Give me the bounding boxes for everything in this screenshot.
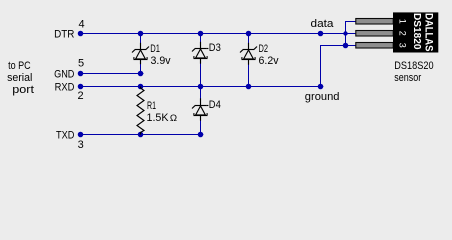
junction ground corner on RXD line [318, 84, 324, 90]
junction D1 bottom on GND line [138, 71, 144, 77]
wire D3 branch vertical top [200, 34, 201, 42]
diode D4 symbol [192, 98, 208, 120]
svg-text:sensor: sensor [394, 72, 421, 84]
DS18S20 sensor package body [393, 12, 438, 52]
svg-text:D4: D4 [209, 99, 221, 111]
wire sensor pin1 stub horizontal [345, 21, 356, 22]
svg-text:R1: R1 [147, 100, 156, 112]
label to PC serial port [7, 60, 34, 96]
wire D4 branch vertical top [200, 87, 201, 99]
wire RXD net horizontal [78, 86, 323, 87]
svg-text:GND: GND [54, 68, 74, 80]
svg-text:TXD: TXD [56, 129, 74, 141]
svg-text:RXD: RXD [55, 81, 75, 93]
svg-text:DALLAS: DALLAS [423, 13, 435, 52]
wire ground horizontal to sensor pin3 [320, 45, 356, 46]
svg-text:1: 1 [398, 19, 408, 24]
wire D1 branch vertical top [140, 34, 141, 43]
junction D3/D4 node on RXD line [198, 84, 204, 90]
junction R1 bottom on TXD line [138, 132, 144, 138]
diode D3 symbol [192, 42, 208, 64]
wire ground vertical [320, 45, 321, 87]
svg-text:D1: D1 [150, 43, 160, 55]
sensor pin 1 lead [356, 19, 393, 25]
wire GND net horizontal [78, 73, 144, 74]
wire TXD net horizontal [78, 134, 203, 135]
diode D1 (zener) symbol [132, 43, 149, 64]
wire DTR/data net horizontal [78, 33, 356, 34]
svg-text:D2: D2 [259, 43, 269, 55]
svg-text:to PC: to PC [8, 60, 31, 72]
junction DTR left terminal [78, 31, 84, 37]
svg-text:5: 5 [78, 58, 84, 70]
svg-text:DS1820: DS1820 [411, 13, 423, 50]
svg-text:Ω: Ω [170, 113, 177, 123]
wire D2 branch vertical top [248, 34, 249, 43]
junction D4 bottom on TXD line [198, 132, 204, 138]
diode D2 (zener) symbol [240, 43, 257, 65]
sensor pin 2 lead [356, 31, 393, 37]
junction R1 top on RXD line [138, 84, 144, 90]
svg-text:3: 3 [398, 43, 408, 48]
wire D4 branch vertical bottom [200, 121, 201, 135]
svg-text:1.5K: 1.5K [147, 112, 170, 124]
junction sensor pin1/pin3 tie [343, 43, 349, 49]
svg-text:D3: D3 [209, 42, 221, 54]
svg-text:2: 2 [398, 31, 408, 36]
junction TXD left terminal [78, 132, 84, 138]
svg-text:3.9v: 3.9v [151, 55, 171, 67]
wire D3 branch vertical bottom [200, 64, 201, 87]
resistor R1 zigzag [137, 87, 144, 135]
svg-text:4: 4 [79, 19, 85, 31]
svg-text:2: 2 [78, 90, 84, 102]
junction GND left terminal [78, 71, 84, 77]
svg-text:DTR: DTR [54, 28, 74, 40]
svg-text:port: port [12, 84, 34, 96]
junction RXD left terminal [78, 84, 84, 90]
junction data crossing at pin1 vertical [343, 31, 347, 35]
svg-text:ground: ground [305, 91, 340, 103]
svg-text:DS18S20: DS18S20 [394, 60, 433, 72]
junction D3 top on DTR line [198, 31, 204, 37]
sensor pin 3 lead [356, 43, 393, 49]
wire D1 branch vertical bottom [140, 64, 141, 74]
wire sensor pin1 vertical [345, 21, 346, 46]
junction D2 bottom on RXD line [246, 84, 252, 90]
svg-text:3: 3 [78, 139, 84, 151]
svg-text:data: data [311, 18, 335, 30]
wire D2 branch vertical bottom [248, 65, 249, 87]
junction data tap on DTR line [318, 31, 324, 37]
svg-text:serial: serial [7, 72, 32, 84]
svg-text:6.2v: 6.2v [259, 55, 279, 67]
junction D1 top on DTR line [138, 31, 144, 37]
junction D2 top on DTR line [246, 31, 252, 37]
